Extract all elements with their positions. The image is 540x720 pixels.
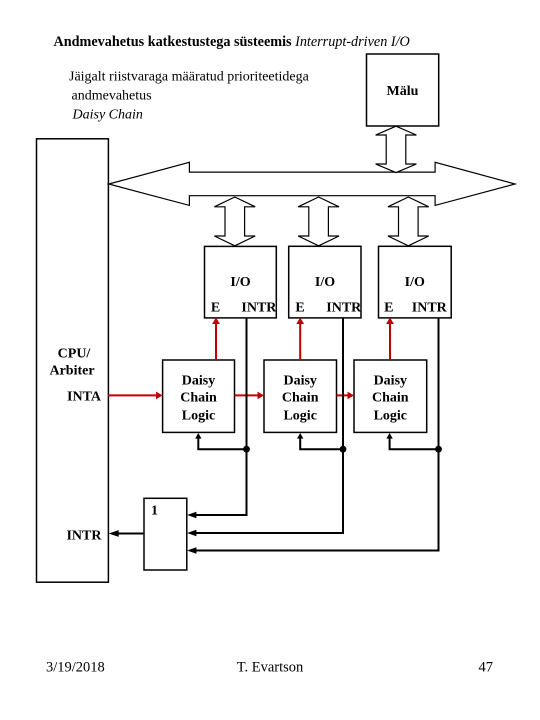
black wire INTR3: I/O3 down, left into OR box bbox=[193, 318, 439, 551]
red wire INTA: CPU to daisy 1 bbox=[108, 394, 156, 396]
I/O box 2 bbox=[289, 246, 361, 318]
memory box M&#228;lu bbox=[367, 54, 439, 126]
junction dot 3 bbox=[435, 446, 442, 453]
vertical double arrow: bus to I/O 2 bbox=[298, 197, 339, 246]
svg-text:1: 1 bbox=[151, 504, 158, 519]
svg-text:INTR: INTR bbox=[241, 301, 277, 316]
black wire INTR out: OR box to CPU bbox=[115, 533, 144, 535]
svg-text:Logic: Logic bbox=[283, 408, 316, 423]
svg-text:E: E bbox=[384, 301, 393, 316]
svg-text:Daisy: Daisy bbox=[283, 373, 316, 388]
svg-text:Chain: Chain bbox=[372, 391, 409, 406]
daisy chain logic box 2 bbox=[264, 360, 337, 432]
red wire E3: daisy 3 up to I/O 3 E pin bbox=[389, 323, 391, 361]
svg-text:Daisy: Daisy bbox=[374, 373, 407, 388]
daisy chain logic box 1 bbox=[163, 360, 235, 432]
svg-text:47: 47 bbox=[479, 660, 494, 676]
svg-text:Chain: Chain bbox=[180, 391, 217, 406]
junction dot 1 bbox=[243, 446, 250, 453]
I/O box 3 bbox=[379, 246, 452, 318]
branch wire to daisy 1 (EI input) bbox=[198, 439, 246, 450]
vertical double arrow: bus to memory bbox=[376, 126, 417, 172]
svg-text:3/19/2018: 3/19/2018 bbox=[46, 660, 105, 676]
svg-text:Mälu: Mälu bbox=[387, 84, 419, 99]
svg-text:Daisy Chain: Daisy Chain bbox=[72, 108, 143, 123]
bus (horizontal double arrow) bbox=[109, 162, 515, 205]
vertical double arrow: bus to I/O 1 bbox=[214, 197, 255, 246]
svg-text:Andmevahetus katkestustega süs: Andmevahetus katkestustega süsteemis Int… bbox=[54, 34, 410, 50]
vertical double arrow: bus to I/O 3 bbox=[388, 197, 429, 246]
red wire chain: daisy 1 to daisy 2 bbox=[235, 394, 258, 396]
svg-text:Logic: Logic bbox=[374, 408, 407, 423]
svg-text:Logic: Logic bbox=[182, 408, 215, 423]
svg-text:INTR: INTR bbox=[66, 529, 102, 544]
CPU/Arbiter box bbox=[37, 139, 109, 582]
black wire INTR1: I/O1 down, left into OR box bbox=[193, 318, 247, 515]
svg-text:Arbiter: Arbiter bbox=[49, 364, 94, 379]
red wire chain: daisy 2 to daisy 3 bbox=[337, 394, 348, 396]
red wire E2: daisy 2 up to I/O 2 E pin bbox=[299, 323, 301, 361]
svg-text:T. Evartson: T. Evartson bbox=[237, 660, 304, 676]
svg-text:INTA: INTA bbox=[67, 390, 102, 405]
branch wire to daisy 2 (EI input) bbox=[300, 439, 343, 450]
junction dot 2 bbox=[340, 446, 347, 453]
svg-text:I/O: I/O bbox=[230, 275, 250, 290]
svg-text:Daisy: Daisy bbox=[182, 373, 215, 388]
svg-text:INTR: INTR bbox=[412, 301, 448, 316]
black wire INTR2: I/O2 down, left into OR box bbox=[193, 318, 343, 533]
daisy chain logic box 3 bbox=[354, 360, 427, 432]
svg-text:I/O: I/O bbox=[315, 275, 335, 290]
svg-text:andmevahetus: andmevahetus bbox=[72, 89, 152, 104]
svg-text:Chain: Chain bbox=[282, 391, 319, 406]
svg-text:INTR: INTR bbox=[326, 301, 362, 316]
red wire E1: daisy 1 up to I/O 1 E pin bbox=[215, 323, 217, 361]
I/O box 1 bbox=[205, 246, 277, 318]
svg-text:E: E bbox=[295, 301, 304, 316]
branch wire to daisy 3 (EI input) bbox=[390, 439, 439, 450]
svg-text:Jäigalt riistvaraga määratud p: Jäigalt riistvaraga määratud prioriteeti… bbox=[69, 70, 310, 85]
svg-text:E: E bbox=[211, 301, 220, 316]
svg-text:I/O: I/O bbox=[405, 275, 425, 290]
OR gate box 1 bbox=[144, 498, 187, 570]
svg-text:CPU/: CPU/ bbox=[58, 347, 92, 362]
